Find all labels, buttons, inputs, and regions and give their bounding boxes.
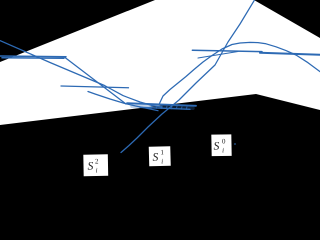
- wire H_right_A: [192, 50, 262, 51]
- curve S0 edge: [0, 41, 162, 107]
- curve c lower approach: [88, 92, 158, 111]
- svg-text:i: i: [161, 157, 163, 165]
- svg-text:i: i: [222, 146, 224, 154]
- svg-text:2: 2: [95, 157, 99, 165]
- wire H_left lower: [2, 57, 64, 59]
- svg-text:S: S: [152, 152, 158, 164]
- wire H3b: [140, 107, 190, 109]
- svg-text:S: S: [213, 141, 219, 153]
- node S_i^2 label: [83, 154, 108, 176]
- hatch ticks near node: [151, 106, 187, 110]
- node S_i^1 label: [149, 146, 171, 166]
- wire A2 lower right segment: [198, 52, 238, 59]
- node dot right of S_i^0: [234, 143, 236, 145]
- wire H_left upper: [0, 55, 66, 58]
- node S_i^0 label: [211, 134, 231, 156]
- wire H_right_B: [260, 53, 320, 55]
- wire fuzz band at node: [132, 106, 193, 108]
- page (white figure background region): [0, 0, 320, 125]
- wire H2: [61, 86, 129, 88]
- svg-text:S: S: [87, 161, 93, 173]
- wire D1 kink diagonal: [65, 58, 126, 105]
- curve C limit curve rising and falling: [159, 42, 320, 104]
- svg-text:i: i: [96, 166, 98, 174]
- wire H3a: [127, 103, 196, 106]
- curve ArcA long steep stroke: [121, 0, 255, 153]
- svg-text:0: 0: [222, 137, 226, 145]
